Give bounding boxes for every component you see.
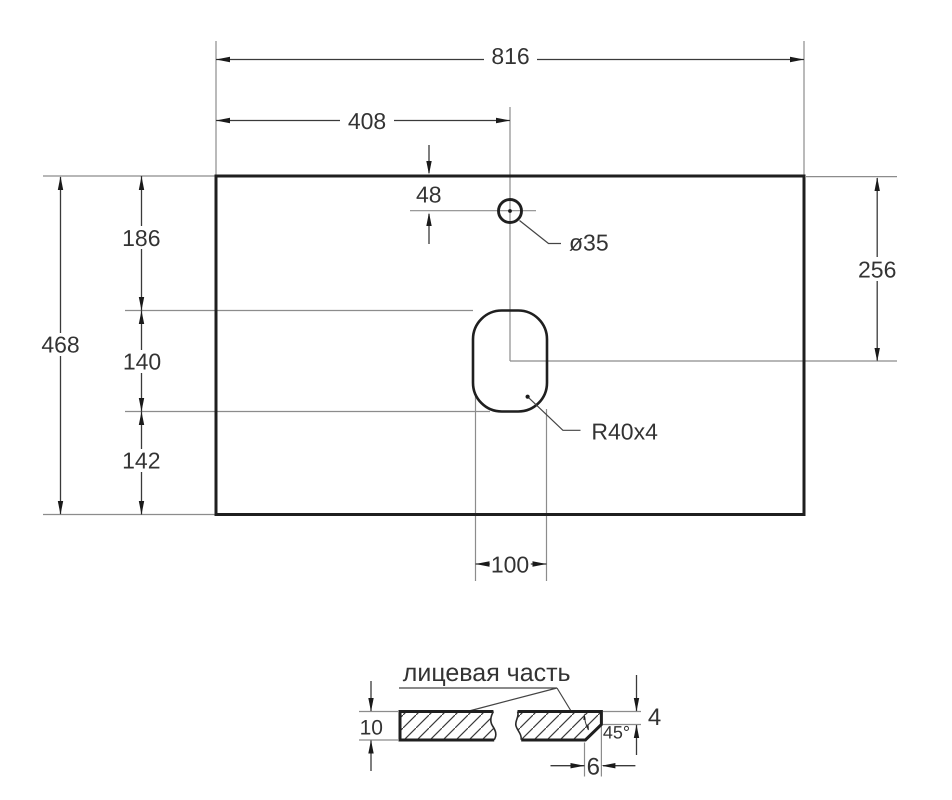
svg-text:45°: 45° — [603, 723, 630, 743]
svg-text:4: 4 — [648, 704, 661, 731]
svg-text:256: 256 — [858, 256, 896, 282]
svg-text:468: 468 — [41, 332, 79, 358]
svg-text:142: 142 — [122, 447, 160, 473]
svg-text:ø35: ø35 — [569, 230, 609, 256]
svg-text:140: 140 — [123, 348, 161, 374]
svg-text:48: 48 — [416, 181, 442, 207]
svg-text:10: 10 — [360, 716, 383, 739]
svg-text:100: 100 — [491, 551, 529, 577]
svg-text:186: 186 — [122, 225, 160, 251]
svg-text:408: 408 — [348, 108, 386, 134]
svg-text:6: 6 — [587, 753, 600, 780]
svg-text:R40x4: R40x4 — [591, 419, 658, 445]
svg-text:816: 816 — [491, 43, 529, 69]
svg-text:лицевая часть: лицевая часть — [403, 659, 571, 687]
